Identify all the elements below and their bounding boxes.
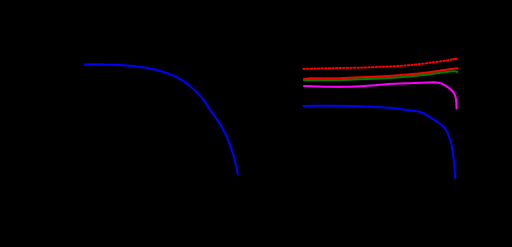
right plot: red dashed curve final long dash bbox=[453, 58, 457, 61]
right plot: magenta curve bbox=[304, 82, 457, 108]
right plot: red solid curve bbox=[304, 68, 458, 79]
right plot: blue curve bbox=[304, 106, 456, 178]
right plot: green curve bbox=[304, 71, 457, 80]
right plot: red dashed curve bbox=[304, 59, 457, 69]
left plot: blue curve bbox=[85, 64, 238, 174]
